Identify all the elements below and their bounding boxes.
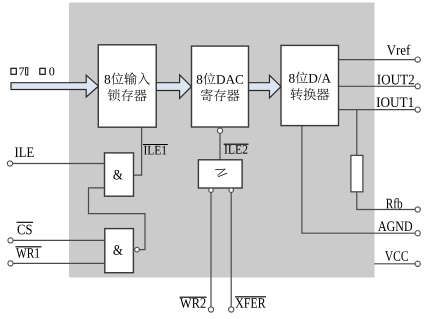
terminal pin XFER xyxy=(229,307,234,312)
label CS (active low) xyxy=(18,225,32,235)
input data bus arrow xyxy=(11,75,99,97)
label XFER (active low) xyxy=(235,298,265,307)
terminal pin Rfb xyxy=(415,207,420,212)
terminal pin AGND xyxy=(415,231,420,236)
label 8位D/A xyxy=(289,72,331,84)
label 8位DAC xyxy=(197,73,243,85)
OR gate U3 (WR2/XFER transfer control) xyxy=(198,160,242,193)
terminal pin VCC xyxy=(415,261,420,266)
terminal pin IOUT1 xyxy=(415,107,420,112)
wire Vref xyxy=(339,59,416,61)
AND gate U1 (ILE latch enable) xyxy=(105,153,134,196)
label AGND xyxy=(378,221,412,231)
resistor Rfb (feedback) xyxy=(351,155,363,191)
wire WR2 input xyxy=(210,192,212,306)
arrow register to converter xyxy=(249,75,282,98)
chip body (shaded DAC0832 outline) xyxy=(69,3,375,278)
terminal pin IOUT2 xyxy=(415,84,420,89)
wire ILE1 net (latch to AND output) xyxy=(133,127,141,175)
label Vref xyxy=(387,45,410,55)
label WR2 (active low) xyxy=(180,298,206,308)
terminal pin ILE xyxy=(7,161,12,166)
wire IOUT2 xyxy=(339,85,416,87)
wire XFER input xyxy=(230,192,232,306)
wire ILE input xyxy=(13,163,105,165)
wire ILE2 net (register bubble to OR gate) xyxy=(219,133,221,160)
label 转换器 xyxy=(291,88,330,100)
terminal pin Vref xyxy=(415,57,420,62)
data bus label D7~D0 (tofu glyphs as in original) xyxy=(11,67,54,75)
wire CS input xyxy=(13,239,105,241)
wire IOUT1 xyxy=(339,109,415,111)
wire resistor to Rfb terminal xyxy=(357,192,415,210)
wire VCC xyxy=(374,263,415,265)
label WR1 (active low) xyxy=(16,248,39,258)
wire AND2 output feedback to AND1 input xyxy=(89,188,146,250)
8-bit input latch block xyxy=(98,45,156,127)
label 寄存器 xyxy=(201,89,240,101)
8-bit DAC register block xyxy=(192,46,249,127)
label ILE1 (net) xyxy=(144,146,166,155)
label ILE2 (net) xyxy=(224,145,247,154)
wire IOUT1 to resistor xyxy=(356,110,358,156)
terminal pin WR2 xyxy=(208,307,213,312)
8-bit D/A converter block xyxy=(281,45,339,125)
label IOUT1 xyxy=(377,97,414,107)
label Rfb xyxy=(386,198,402,208)
label 锁存器 xyxy=(108,89,147,101)
wire AGND from converter xyxy=(302,126,415,234)
AND gate U2 (CS/WR1) with inverted output xyxy=(105,229,140,273)
label ILE xyxy=(15,148,34,157)
wire WR1 input xyxy=(13,262,105,264)
inverter bubble on DAC register load input xyxy=(217,128,222,133)
label IOUT2 xyxy=(377,75,414,85)
arrow latch to DAC register xyxy=(156,75,191,99)
terminal pin CS xyxy=(8,238,13,243)
terminal pin WR1 xyxy=(8,261,13,266)
label VCC xyxy=(385,251,408,261)
label 8位输入 xyxy=(105,72,150,84)
